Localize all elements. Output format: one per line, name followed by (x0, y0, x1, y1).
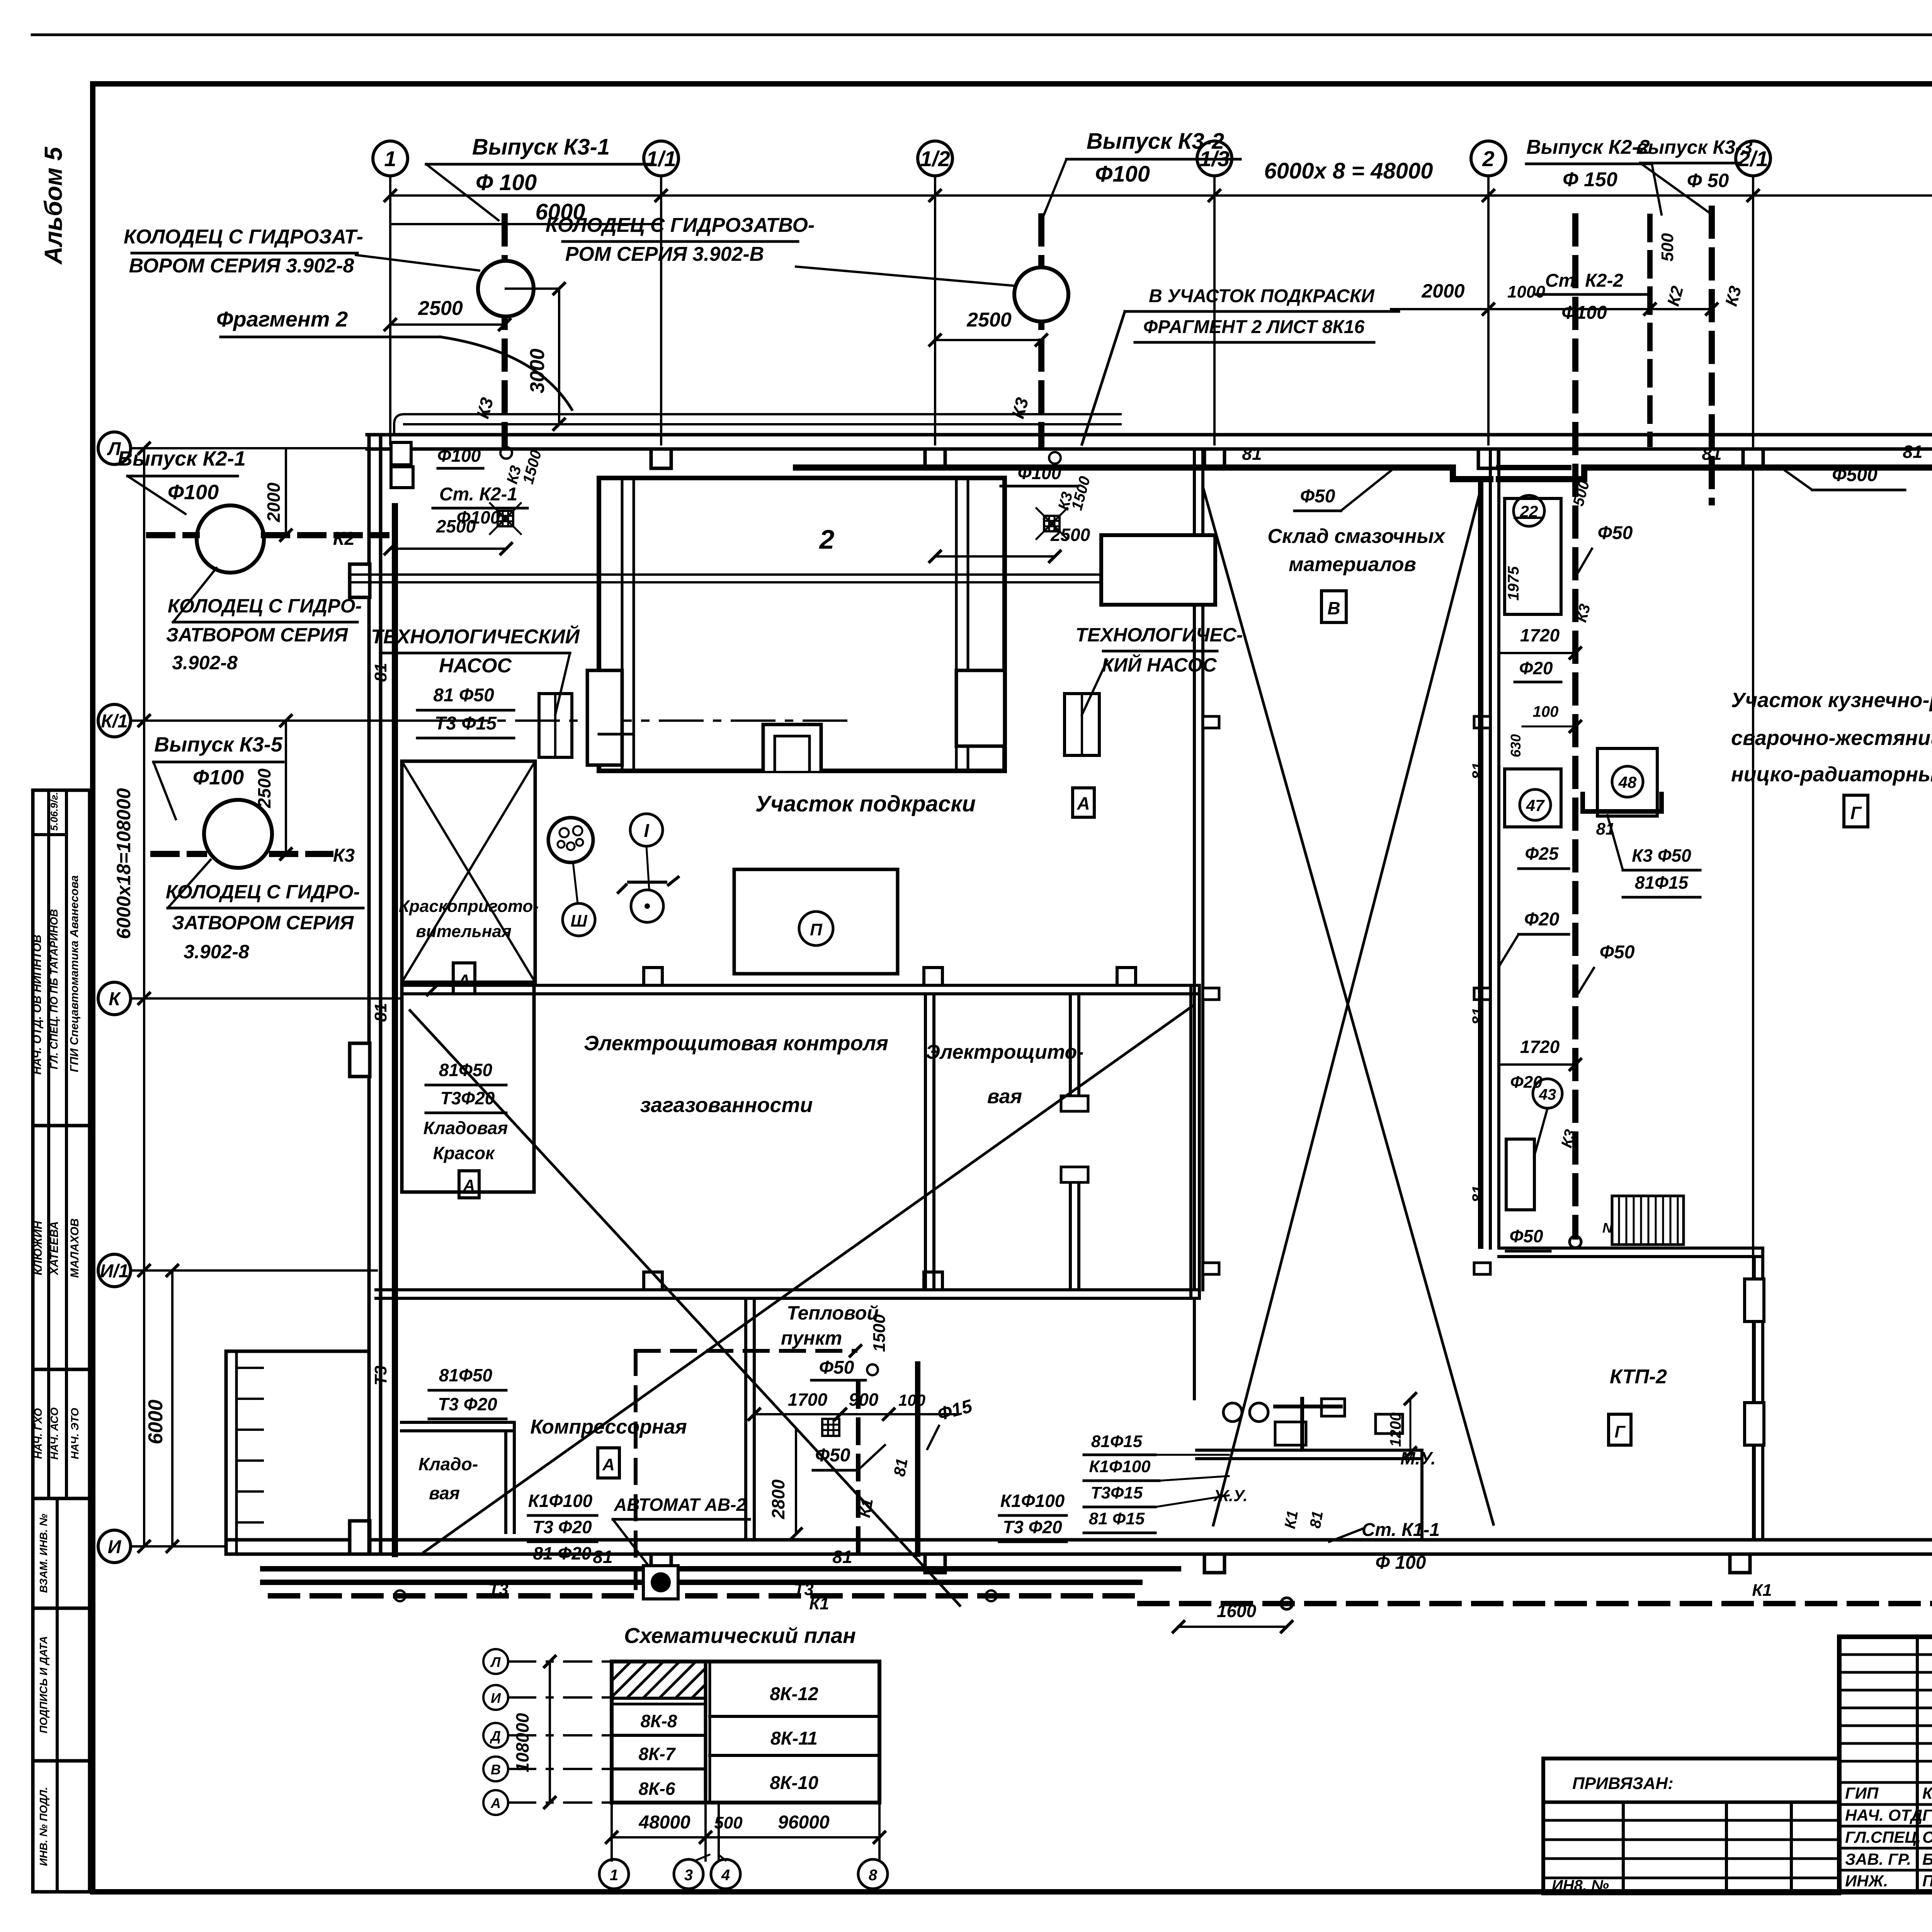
svg-text:НАЧ. ГХО: НАЧ. ГХО (32, 1408, 44, 1459)
svg-text:Схематический план: Схематический план (624, 1623, 856, 1648)
room 48 (1597, 748, 1657, 816)
axis circle 1/2 (918, 141, 952, 176)
svg-text:ВОРОМ СЕРИЯ 3.902-8: ВОРОМ СЕРИЯ 3.902-8 (129, 255, 354, 277)
svg-text:81: 81 (371, 663, 390, 682)
hatch cross symbol left (498, 511, 513, 526)
svg-text:Г: Г (1850, 803, 1862, 823)
svg-text:Склад смазочных: Склад смазочных (1267, 525, 1446, 548)
svg-text:Т3Ф15: Т3Ф15 (1091, 1483, 1143, 1502)
left wall pilasters (350, 564, 370, 597)
svg-text:Ф100: Ф100 (1561, 303, 1607, 323)
svg-text:1500: 1500 (870, 1314, 889, 1352)
svg-text:НАЧ. ОТД. ОВ НИПНТОВ: НАЧ. ОТД. ОВ НИПНТОВ (31, 935, 44, 1075)
left axis lines (131, 447, 369, 449)
svg-text:В: В (1327, 598, 1340, 618)
dashed K3 middle (1572, 216, 1578, 1236)
svg-text:Выпуск К3-5: Выпуск К3-5 (154, 733, 283, 756)
zone box G kuzn (1844, 795, 1868, 827)
svg-text:Ст. К2-2: Ст. К2-2 (1545, 270, 1624, 291)
svg-text:2000: 2000 (264, 482, 284, 522)
svg-text:2500: 2500 (1050, 525, 1090, 545)
svg-text:1600: 1600 (1217, 1601, 1257, 1621)
bottom dashed K1 (270, 1593, 1140, 1599)
svg-text:ГИП: ГИП (1845, 1784, 1879, 1802)
left exterior wall (367, 435, 371, 1554)
K axis tick marks top of electro (427, 984, 438, 995)
svg-text:ГЛ. СПЕЦ. ПО ПБ ТАТАРИНОВ: ГЛ. СПЕЦ. ПО ПБ ТАТАРИНОВ (48, 909, 60, 1070)
svg-text:81Ф15: 81Ф15 (1091, 1432, 1143, 1451)
top wall column tabs (651, 449, 671, 468)
svg-text:3: 3 (684, 1867, 693, 1884)
svg-text:3.902-8: 3.902-8 (184, 941, 249, 963)
svg-text:выпуск К3-3: выпуск К3-3 (1636, 136, 1752, 158)
svg-text:ПОПОВА: ПОПОВА (1922, 1872, 1932, 1890)
sklad right wall (1489, 449, 1492, 1248)
svg-text:Ст. К1-1: Ст. К1-1 (1362, 1520, 1440, 1540)
svg-text:И: И (108, 1537, 122, 1557)
svg-text:И: И (491, 1690, 501, 1706)
top dimension line (390, 194, 1932, 197)
svg-text:ЗАТВОРОМ СЕРИЯ: ЗАТВОРОМ СЕРИЯ (172, 912, 354, 934)
svg-text:1975: 1975 (1505, 566, 1522, 601)
svg-text:8К-8: 8К-8 (641, 1711, 677, 1731)
equipment box right (1101, 535, 1215, 605)
svg-text:НАСОС: НАСОС (439, 655, 512, 677)
circled I (630, 814, 663, 846)
well K3-1 (478, 261, 534, 316)
svg-text:Ш: Ш (570, 912, 587, 930)
svg-text:1720: 1720 (1520, 1037, 1560, 1057)
svg-text:81 Ф15: 81 Ф15 (1089, 1509, 1145, 1528)
X cross left block (410, 1010, 960, 1605)
svg-text:К: К (109, 989, 121, 1009)
KTP-2 room walls (1499, 1247, 1763, 1250)
circled II (799, 912, 833, 946)
axis column lines to wall (389, 176, 391, 444)
zone box V (1321, 591, 1346, 622)
sklad left wall (1193, 449, 1196, 1290)
zone box G ktp (1609, 1414, 1631, 1445)
svg-text:КИЙ НАСОС: КИЙ НАСОС (1102, 654, 1217, 676)
svg-text:81: 81 (1242, 444, 1262, 464)
svg-text:сварочно-жестяницкий и мед-: сварочно-жестяницкий и мед- (1731, 726, 1932, 750)
pump box right (1065, 694, 1099, 755)
sidebar signatures block (33, 1126, 90, 1369)
svg-text:ХАТЕЕВА: ХАТЕЕВА (48, 1221, 61, 1276)
svg-text:8К-7: 8К-7 (639, 1744, 676, 1764)
hatch symbol teplo (822, 1419, 839, 1436)
svg-text:Выпуск К2-2: Выпуск К2-2 (1526, 136, 1650, 158)
svg-text:Т3Ф20: Т3Ф20 (440, 1088, 495, 1108)
room 22 (1505, 498, 1561, 614)
axis circle 1/1 (644, 141, 679, 176)
bottom pipe T3 (263, 1580, 1140, 1585)
svg-text:22: 22 (1520, 502, 1538, 520)
electro room divider wall (925, 993, 932, 995)
left axis circle Л (98, 432, 131, 464)
svg-text:В: В (491, 1762, 501, 1777)
svg-text:Ф 100: Ф 100 (1376, 1553, 1426, 1573)
svg-text:ГПИ Спецавтоматика Аванесова: ГПИ Спецавтоматика Аванесова (68, 875, 81, 1072)
svg-text:48: 48 (1618, 773, 1637, 791)
svg-text:Ф100: Ф100 (168, 481, 219, 504)
svg-text:Ж.У.: Ж.У. (1213, 1486, 1248, 1505)
svg-text:К3: К3 (333, 845, 355, 866)
svg-text:Выпуск К3-2: Выпуск К3-2 (1087, 129, 1224, 154)
VK-12 row (710, 1715, 879, 1718)
svg-text:ЗАВ. ГР.: ЗАВ. ГР. (1845, 1850, 1911, 1868)
svg-text:2: 2 (1482, 146, 1494, 171)
svg-text:НАЧ. ЭТО: НАЧ. ЭТО (69, 1408, 81, 1459)
svg-text:2500: 2500 (966, 309, 1012, 331)
dim 6000 first bay (390, 223, 661, 225)
svg-text:Л: Л (490, 1654, 501, 1670)
svg-text:108000: 108000 (512, 1713, 532, 1772)
svg-text:N: N (1602, 1220, 1613, 1236)
svg-text:ТЕХНОЛОГИЧЕСКИЙ: ТЕХНОЛОГИЧЕСКИЙ (371, 625, 580, 648)
svg-text:1: 1 (610, 1867, 618, 1884)
kladovaya room bottom (401, 1421, 514, 1424)
vertical dim line 108000 (143, 448, 145, 1546)
wall stubs in electro room (1069, 994, 1072, 1096)
dim 2500 well1 (390, 323, 505, 326)
room II rect (734, 869, 898, 974)
svg-text:ИН8. №: ИН8. № (1552, 1877, 1609, 1894)
svg-text:КОЛОДЕЦ С ГИДРО-: КОЛОДЕЦ С ГИДРО- (168, 595, 362, 617)
svg-text:Краскопригото-: Краскопригото- (399, 897, 539, 916)
svg-text:2500: 2500 (436, 516, 476, 536)
schematic bottom dims (612, 1836, 879, 1838)
svg-text:ГЛ.СПЕЦ.: ГЛ.СПЕЦ. (1845, 1828, 1921, 1846)
svg-text:И/1: И/1 (100, 1261, 129, 1281)
svg-text:Альбом 5: Альбом 5 (39, 146, 67, 265)
svg-text:100: 100 (1533, 703, 1559, 720)
svg-text:1720: 1720 (1520, 625, 1560, 645)
svg-text:1/1: 1/1 (646, 146, 676, 171)
svg-text:ВЗАМ. ИНВ. №: ВЗАМ. ИНВ. № (37, 1514, 49, 1593)
svg-text:2500: 2500 (254, 768, 274, 808)
pump box left (539, 694, 572, 757)
svg-text:Ф100: Ф100 (193, 766, 244, 789)
svg-text:ЗАТВОРОМ СЕРИЯ: ЗАТВОРОМ СЕРИЯ (166, 624, 349, 646)
room 47 (1505, 769, 1561, 827)
svg-text:Кладо-: Кладо- (418, 1454, 478, 1474)
sanitary fixtures (1223, 1403, 1242, 1422)
svg-text:6000: 6000 (145, 1400, 167, 1444)
svg-text:Ф25: Ф25 (1525, 844, 1559, 864)
svg-text:81: 81 (1702, 444, 1721, 464)
svg-text:Ф50: Ф50 (815, 1445, 850, 1466)
conveyor double line (350, 573, 1215, 576)
svg-text:вая: вая (429, 1483, 460, 1503)
axis circle 2/1 (1736, 141, 1770, 176)
svg-text:Ф 100: Ф 100 (476, 170, 537, 195)
svg-text:пункт: пункт (781, 1327, 842, 1349)
svg-text:81 Ф50: 81 Ф50 (433, 685, 494, 706)
svg-text:К1: К1 (1752, 1581, 1772, 1600)
svg-text:3.902-8: 3.902-8 (172, 652, 238, 673)
svg-text:А: А (463, 1176, 475, 1194)
svg-text:8К-12: 8К-12 (770, 1684, 818, 1704)
svg-text:1700: 1700 (788, 1389, 828, 1410)
K/1 axis tick (281, 715, 291, 726)
svg-text:К1Ф100: К1Ф100 (1089, 1457, 1151, 1476)
axis circle 1/3 (1197, 141, 1232, 176)
left axis circle И (98, 1530, 131, 1563)
well K3-1 leader and label (356, 255, 479, 270)
schematic left axis circles (483, 1649, 508, 1674)
svg-text:81: 81 (1903, 442, 1922, 462)
svg-text:81: 81 (1469, 762, 1486, 780)
svg-text:Т3 Ф20: Т3 Ф20 (1003, 1517, 1062, 1537)
svg-text:2500: 2500 (418, 297, 463, 320)
left axis circle К/1 (98, 704, 131, 737)
svg-text:Кладовая: Кладовая (423, 1118, 508, 1138)
svg-text:81: 81 (832, 1547, 852, 1567)
svg-text:Г: Г (1614, 1422, 1626, 1441)
B1 riser middle (1478, 481, 1483, 1246)
svg-text:Ф500: Ф500 (1832, 465, 1878, 485)
svg-text:Ф 50: Ф 50 (1687, 170, 1729, 191)
B1 pipe top right half (1499, 476, 1584, 482)
svg-text:6000х 8 = 48000: 6000х 8 = 48000 (1264, 158, 1433, 184)
bottom wall column tabs (651, 1554, 671, 1573)
dashed K3 riser right of axis2 (1709, 209, 1715, 502)
well K3-2 (1014, 267, 1068, 321)
svg-text:А: А (1077, 793, 1090, 813)
svg-text:900: 900 (849, 1389, 879, 1410)
VK-7 row (612, 1767, 706, 1770)
svg-text:1200: 1200 (1387, 1413, 1404, 1447)
svg-text:Т3 Ф20: Т3 Ф20 (438, 1394, 497, 1414)
sidebar podpis block (33, 1608, 90, 1761)
chamber right lower cell (956, 670, 1005, 746)
svg-text:КТП-2: КТП-2 (1610, 1366, 1667, 1388)
dashed K2 riser (1647, 216, 1653, 444)
svg-text:81 Ф20: 81 Ф20 (533, 1543, 591, 1563)
svg-text:Участок подкраски: Участок подкраски (755, 791, 976, 816)
schematic axis circles bottom (599, 1859, 629, 1889)
B1 vertical teplo (915, 1364, 920, 1554)
svg-text:К1: К1 (855, 1497, 876, 1519)
left axis circle К (98, 982, 131, 1015)
dim 2500 well2 (935, 339, 1041, 341)
interior wall below (axis I/1) (376, 1288, 1199, 1291)
well K3-5 (204, 800, 272, 868)
svg-text:Красок: Красок (433, 1143, 496, 1163)
sidebar dept rows (33, 1369, 90, 1498)
parapet lines top-left (394, 414, 1121, 435)
svg-text:К1: К1 (809, 1594, 829, 1613)
paint chamber 2 outer (599, 478, 1005, 771)
lower-left annex room (226, 1351, 369, 1554)
svg-text:Ст. К2-1: Ст. К2-1 (439, 484, 517, 505)
svg-text:81: 81 (1469, 1185, 1486, 1203)
svg-text:вая: вая (987, 1085, 1022, 1108)
sidebar approval table (33, 790, 90, 1126)
sidebar vzam inv block (33, 1498, 90, 1608)
chamber inner left lines (621, 478, 624, 771)
gauge symbol (548, 818, 593, 862)
svg-text:ПРИВЯЗАН:: ПРИВЯЗАН: (1572, 1774, 1673, 1793)
svg-text:81: 81 (1469, 1008, 1486, 1025)
svg-text:К2: К2 (333, 529, 355, 549)
svg-text:6000х18=108000: 6000х18=108000 (113, 788, 134, 939)
outer border top (32, 34, 1932, 36)
top exterior wall (367, 433, 1932, 437)
svg-text:Выпуск К2-1: Выпуск К2-1 (117, 447, 246, 470)
svg-text:1000: 1000 (1507, 282, 1545, 301)
svg-text:Д: Д (490, 1728, 501, 1744)
dim 3000 well1 (506, 287, 559, 290)
axis circle 1 (373, 141, 408, 176)
svg-text:Ф100: Ф100 (437, 446, 481, 466)
zone box A krasok (459, 1171, 479, 1198)
svg-text:КОЛОДЕЦ С ГИДРОЗАТВО-: КОЛОДЕЦ С ГИДРОЗАТВО- (546, 214, 815, 236)
svg-text:ИНЖ.: ИНЖ. (1845, 1872, 1888, 1890)
room 43 (1533, 1079, 1562, 1108)
svg-text:1/2: 1/2 (920, 146, 950, 171)
svg-text:К3 Ф50: К3 Ф50 (1632, 845, 1691, 866)
svg-text:П: П (810, 920, 823, 939)
svg-text:81: 81 (371, 1003, 390, 1022)
circled III (563, 903, 595, 936)
svg-text:43: 43 (1539, 1086, 1556, 1103)
svg-text:КОЛОДЕЦ С ГИДРОЗАТ-: КОЛОДЕЦ С ГИДРОЗАТ- (124, 226, 363, 248)
teplovoy punkt walls (744, 1298, 747, 1540)
svg-text:Выпуск К3-1: Выпуск К3-1 (472, 134, 610, 160)
svg-text:ГВОЗДЕВ: ГВОЗДЕВ (1922, 1806, 1932, 1824)
well K3-2 leader and label (796, 267, 1016, 286)
svg-text:81: 81 (890, 1457, 911, 1478)
svg-text:Ф50: Ф50 (1300, 486, 1335, 507)
svg-text:ИНВ. № ПОДЛ.: ИНВ. № ПОДЛ. (37, 1787, 49, 1866)
automat symbol (643, 1566, 678, 1599)
VK-8 row (612, 1734, 706, 1737)
interior wall on axis K (402, 984, 1199, 987)
svg-text:НАЧ. АСО: НАЧ. АСО (48, 1407, 60, 1459)
svg-text:Ф100: Ф100 (1095, 162, 1150, 187)
kompressornaya dashed zone (636, 1349, 855, 1353)
title block outer (1839, 1637, 1932, 1892)
B1 pipe top middle (796, 464, 1453, 471)
stairs block (1612, 1196, 1684, 1245)
chamber inner right lines (955, 478, 958, 771)
svg-text:А: А (602, 1455, 615, 1474)
zone box A kraska (453, 963, 475, 994)
svg-text:ПОДПИСЬ И ДАТА: ПОДПИСЬ И ДАТА (37, 1636, 49, 1733)
svg-text:МАЛАХОВ: МАЛАХОВ (68, 1218, 81, 1278)
wall corner boxes top-left (391, 442, 411, 465)
hatched cell (612, 1697, 706, 1700)
zone box A podkraska (1073, 788, 1094, 817)
svg-text:1: 1 (384, 146, 396, 171)
svg-text:5.06.9/г.: 5.06.9/г. (48, 792, 60, 831)
svg-text:ТЕХНОЛОГИЧЕС-: ТЕХНОЛОГИЧЕС- (1076, 624, 1243, 646)
bottom exterior wall (226, 1538, 1932, 1542)
svg-text:2000: 2000 (1421, 280, 1464, 302)
svg-text:В УЧАСТОК ПОДКРАСКИ: В УЧАСТОК ПОДКРАСКИ (1149, 286, 1375, 306)
pump symbol (631, 890, 663, 922)
svg-text:ФРАГМЕНТ 2 ЛИСТ 8К16: ФРАГМЕНТ 2 ЛИСТ 8К16 (1143, 317, 1365, 337)
svg-text:8К-11: 8К-11 (770, 1728, 818, 1749)
K3-2 riser dashed (1038, 216, 1044, 444)
dim 6000 left (171, 1270, 173, 1546)
svg-text:А: А (490, 1795, 501, 1811)
svg-text:РОМ СЕРИЯ 3.902-В: РОМ СЕРИЯ 3.902-В (565, 243, 764, 265)
svg-text:НАЧ. ОТД.: НАЧ. ОТД. (1845, 1806, 1927, 1824)
B1 riser along left wall (392, 506, 398, 1554)
svg-text:ницко-радиаторный: ницко-радиаторный (1731, 763, 1932, 786)
B1 hook at 48 (1583, 794, 1662, 811)
VK-11 row (710, 1754, 879, 1757)
svg-text:Ф20: Ф20 (1519, 658, 1553, 678)
svg-text:материалов: материалов (1289, 553, 1416, 576)
svg-text:К1Ф100: К1Ф100 (1000, 1491, 1065, 1511)
K2 dashed line (149, 532, 197, 538)
B1 pipe right of 22 (1499, 465, 1569, 470)
svg-text:Ф20: Ф20 (1524, 909, 1560, 930)
svg-text:К1Ф100: К1Ф100 (528, 1491, 593, 1511)
drain symbols on K1 (395, 1590, 405, 1601)
svg-text:Участок кузнечно-рессорный: Участок кузнечно-рессорный (1731, 689, 1932, 712)
left axis circle И/1 (98, 1254, 131, 1287)
sklad wall column tabs (1203, 716, 1219, 728)
svg-text:СЕМЕНЦОВА: СЕМЕНЦОВА (1922, 1828, 1932, 1846)
electro right wall (1198, 985, 1201, 1298)
svg-text:вительная: вительная (416, 922, 512, 941)
axis circle 2 (1471, 141, 1506, 176)
svg-text:Ф50: Ф50 (1598, 523, 1633, 543)
big X cross sklad (1203, 487, 1493, 1524)
svg-text:Т3 Ф15: Т3 Ф15 (435, 713, 497, 734)
svg-text:96000: 96000 (778, 1812, 830, 1833)
svg-text:81Ф50: 81Ф50 (439, 1365, 493, 1385)
svg-text:Электрощито-: Электрощито- (925, 1041, 1083, 1063)
K3 dashed line left (153, 851, 204, 857)
zone box A kompr (598, 1448, 619, 1478)
long axis lines through hall (1752, 444, 1754, 1540)
svg-text:Электрощитовая контроля: Электрощитовая контроля (584, 1032, 888, 1055)
svg-text:81Ф50: 81Ф50 (439, 1060, 493, 1080)
svg-text:АВТОМАТ АВ-2: АВТОМАТ АВ-2 (614, 1495, 746, 1515)
chamber left lower cell (587, 670, 622, 765)
sidebar inv podl block (33, 1761, 90, 1892)
K1 dashed vertical teplo (856, 1383, 861, 1553)
svg-text:К/1: К/1 (101, 711, 128, 731)
hatch cross symbol right (1044, 516, 1060, 531)
title block signature columns (1916, 1637, 1919, 1892)
K3 riser dashed (axis1 bay) (502, 216, 508, 444)
svg-text:630: 630 (1508, 734, 1524, 757)
svg-text:8К-10: 8К-10 (770, 1773, 818, 1793)
K3 symbol left (500, 447, 512, 459)
svg-text:Т3 Ф20: Т3 Ф20 (532, 1517, 592, 1537)
svg-text:8К-6: 8К-6 (639, 1779, 675, 1799)
dim 2000 1000 (1391, 308, 1712, 310)
svg-text:Ф50: Ф50 (819, 1357, 854, 1378)
kraskoprigotovitelnaya room (402, 761, 535, 982)
svg-text:2: 2 (819, 524, 835, 554)
svg-text:КОЛОДЕЦ С ГИДРО-: КОЛОДЕЦ С ГИДРО- (166, 881, 360, 903)
svg-text:Фрагмент 2: Фрагмент 2 (216, 307, 348, 331)
sanitary block walls (1193, 1298, 1196, 1399)
well K2-1 (197, 505, 264, 573)
svg-text:Т3: Т3 (371, 1366, 390, 1385)
svg-text:Ф50: Ф50 (1600, 942, 1635, 963)
svg-text:48000: 48000 (638, 1812, 690, 1833)
svg-text:БОРОДКИНА: БОРОДКИНА (1922, 1850, 1932, 1868)
